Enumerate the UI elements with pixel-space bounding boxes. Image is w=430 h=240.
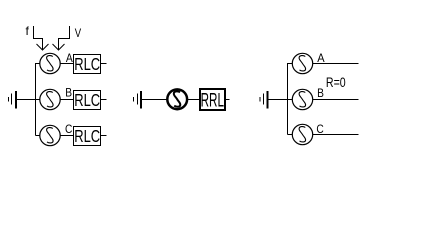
svg-text:B: B bbox=[317, 87, 324, 100]
svg-text:C: C bbox=[65, 123, 72, 136]
svg-text:V: V bbox=[75, 27, 82, 40]
svg-text:R=0: R=0 bbox=[326, 75, 346, 91]
svg-text:A: A bbox=[66, 52, 73, 65]
svg-text:RRL: RRL bbox=[201, 90, 224, 112]
svg-text:RLC: RLC bbox=[74, 127, 100, 146]
svg-text:RLC: RLC bbox=[74, 91, 100, 110]
svg-text:RLC: RLC bbox=[74, 55, 100, 74]
svg-text:C: C bbox=[316, 123, 323, 136]
svg-text:A: A bbox=[317, 53, 325, 65]
svg-text:B: B bbox=[65, 87, 72, 100]
